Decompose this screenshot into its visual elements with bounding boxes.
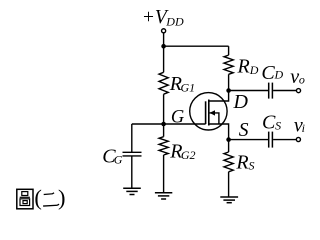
svg-text:D: D [274,68,284,82]
svg-text:G: G [114,153,123,167]
channel bar [208,100,210,126]
gate bar [205,101,207,124]
terminal vi [296,137,300,141]
label RG1 [169,73,195,95]
label CG [102,146,123,168]
capacitor CS [269,132,273,148]
drain lead [209,91,229,102]
label vi [294,115,305,137]
junction dot G node [161,122,166,127]
caption figure(2) glyph TU [17,189,33,209]
terminal vo [296,89,300,93]
svg-text:C: C [262,111,276,133]
wire CG vertical [131,124,133,152]
wire S node to CS [229,139,268,141]
label vo [290,66,305,88]
svg-text:DD: DD [165,15,184,29]
ground CG [123,188,141,194]
wire RS to ground [228,172,230,197]
svg-text:G2: G2 [181,148,196,162]
svg-text:): ) [58,185,66,210]
wire VDD node to RD branch [164,45,229,47]
svg-text:S: S [275,118,281,132]
label +VDD [142,7,184,29]
transistor M1 (NMOS) [190,91,229,140]
junction dot S node [226,137,231,142]
svg-text:D: D [233,91,249,113]
wire RG1 bottom to G node [163,94,165,124]
wire VDD vertical to RG1 [163,33,165,72]
wire RG2 to ground [163,155,165,193]
svg-text:v: v [290,66,299,88]
junction dot D node [226,88,231,93]
label RG2 [169,141,195,163]
svg-text:i: i [302,121,305,135]
wire G node to RG2 [163,124,165,137]
body line [210,113,219,124]
label RD [237,56,259,78]
junction dot VDD node [161,44,166,49]
svg-text:G1: G1 [181,81,196,95]
svg-text:o: o [299,73,305,87]
label RS [235,152,254,174]
wire gate row (CG corner to gate bar) [132,123,206,125]
caption parentheses and two [34,185,65,210]
stroke two-bottom [43,204,59,207]
svg-text:C: C [261,62,275,84]
svg-text:S: S [239,120,249,141]
svg-text:(: ( [34,185,42,210]
wire RD top [228,46,230,55]
wire RD bottom to D node [228,74,230,90]
capacitor CG [123,152,142,156]
transistor body circle [190,93,227,130]
stroke two-top [44,192,55,195]
label CS [262,111,281,133]
body arrow [210,110,216,115]
wire D node to CD [229,90,268,92]
resistor RG1 [159,72,168,94]
terminal VDD [162,29,166,33]
source lead [209,124,229,140]
label CD [261,62,283,84]
wire CG to ground [131,156,133,188]
svg-text:D: D [249,63,259,77]
svg-text:+V: +V [142,7,169,28]
wire CD to vo [273,90,296,92]
ground RG2 [155,193,172,199]
capacitor CD [269,83,273,99]
resistor RD [224,55,233,74]
resistor RG2 [159,137,168,155]
resistor RS [224,152,233,172]
ground RS [220,197,238,203]
svg-text:R: R [237,56,250,78]
wire CS to vi [273,139,296,141]
svg-text:S: S [249,159,255,173]
wire S to RS [228,140,230,152]
svg-text:R: R [235,152,248,174]
